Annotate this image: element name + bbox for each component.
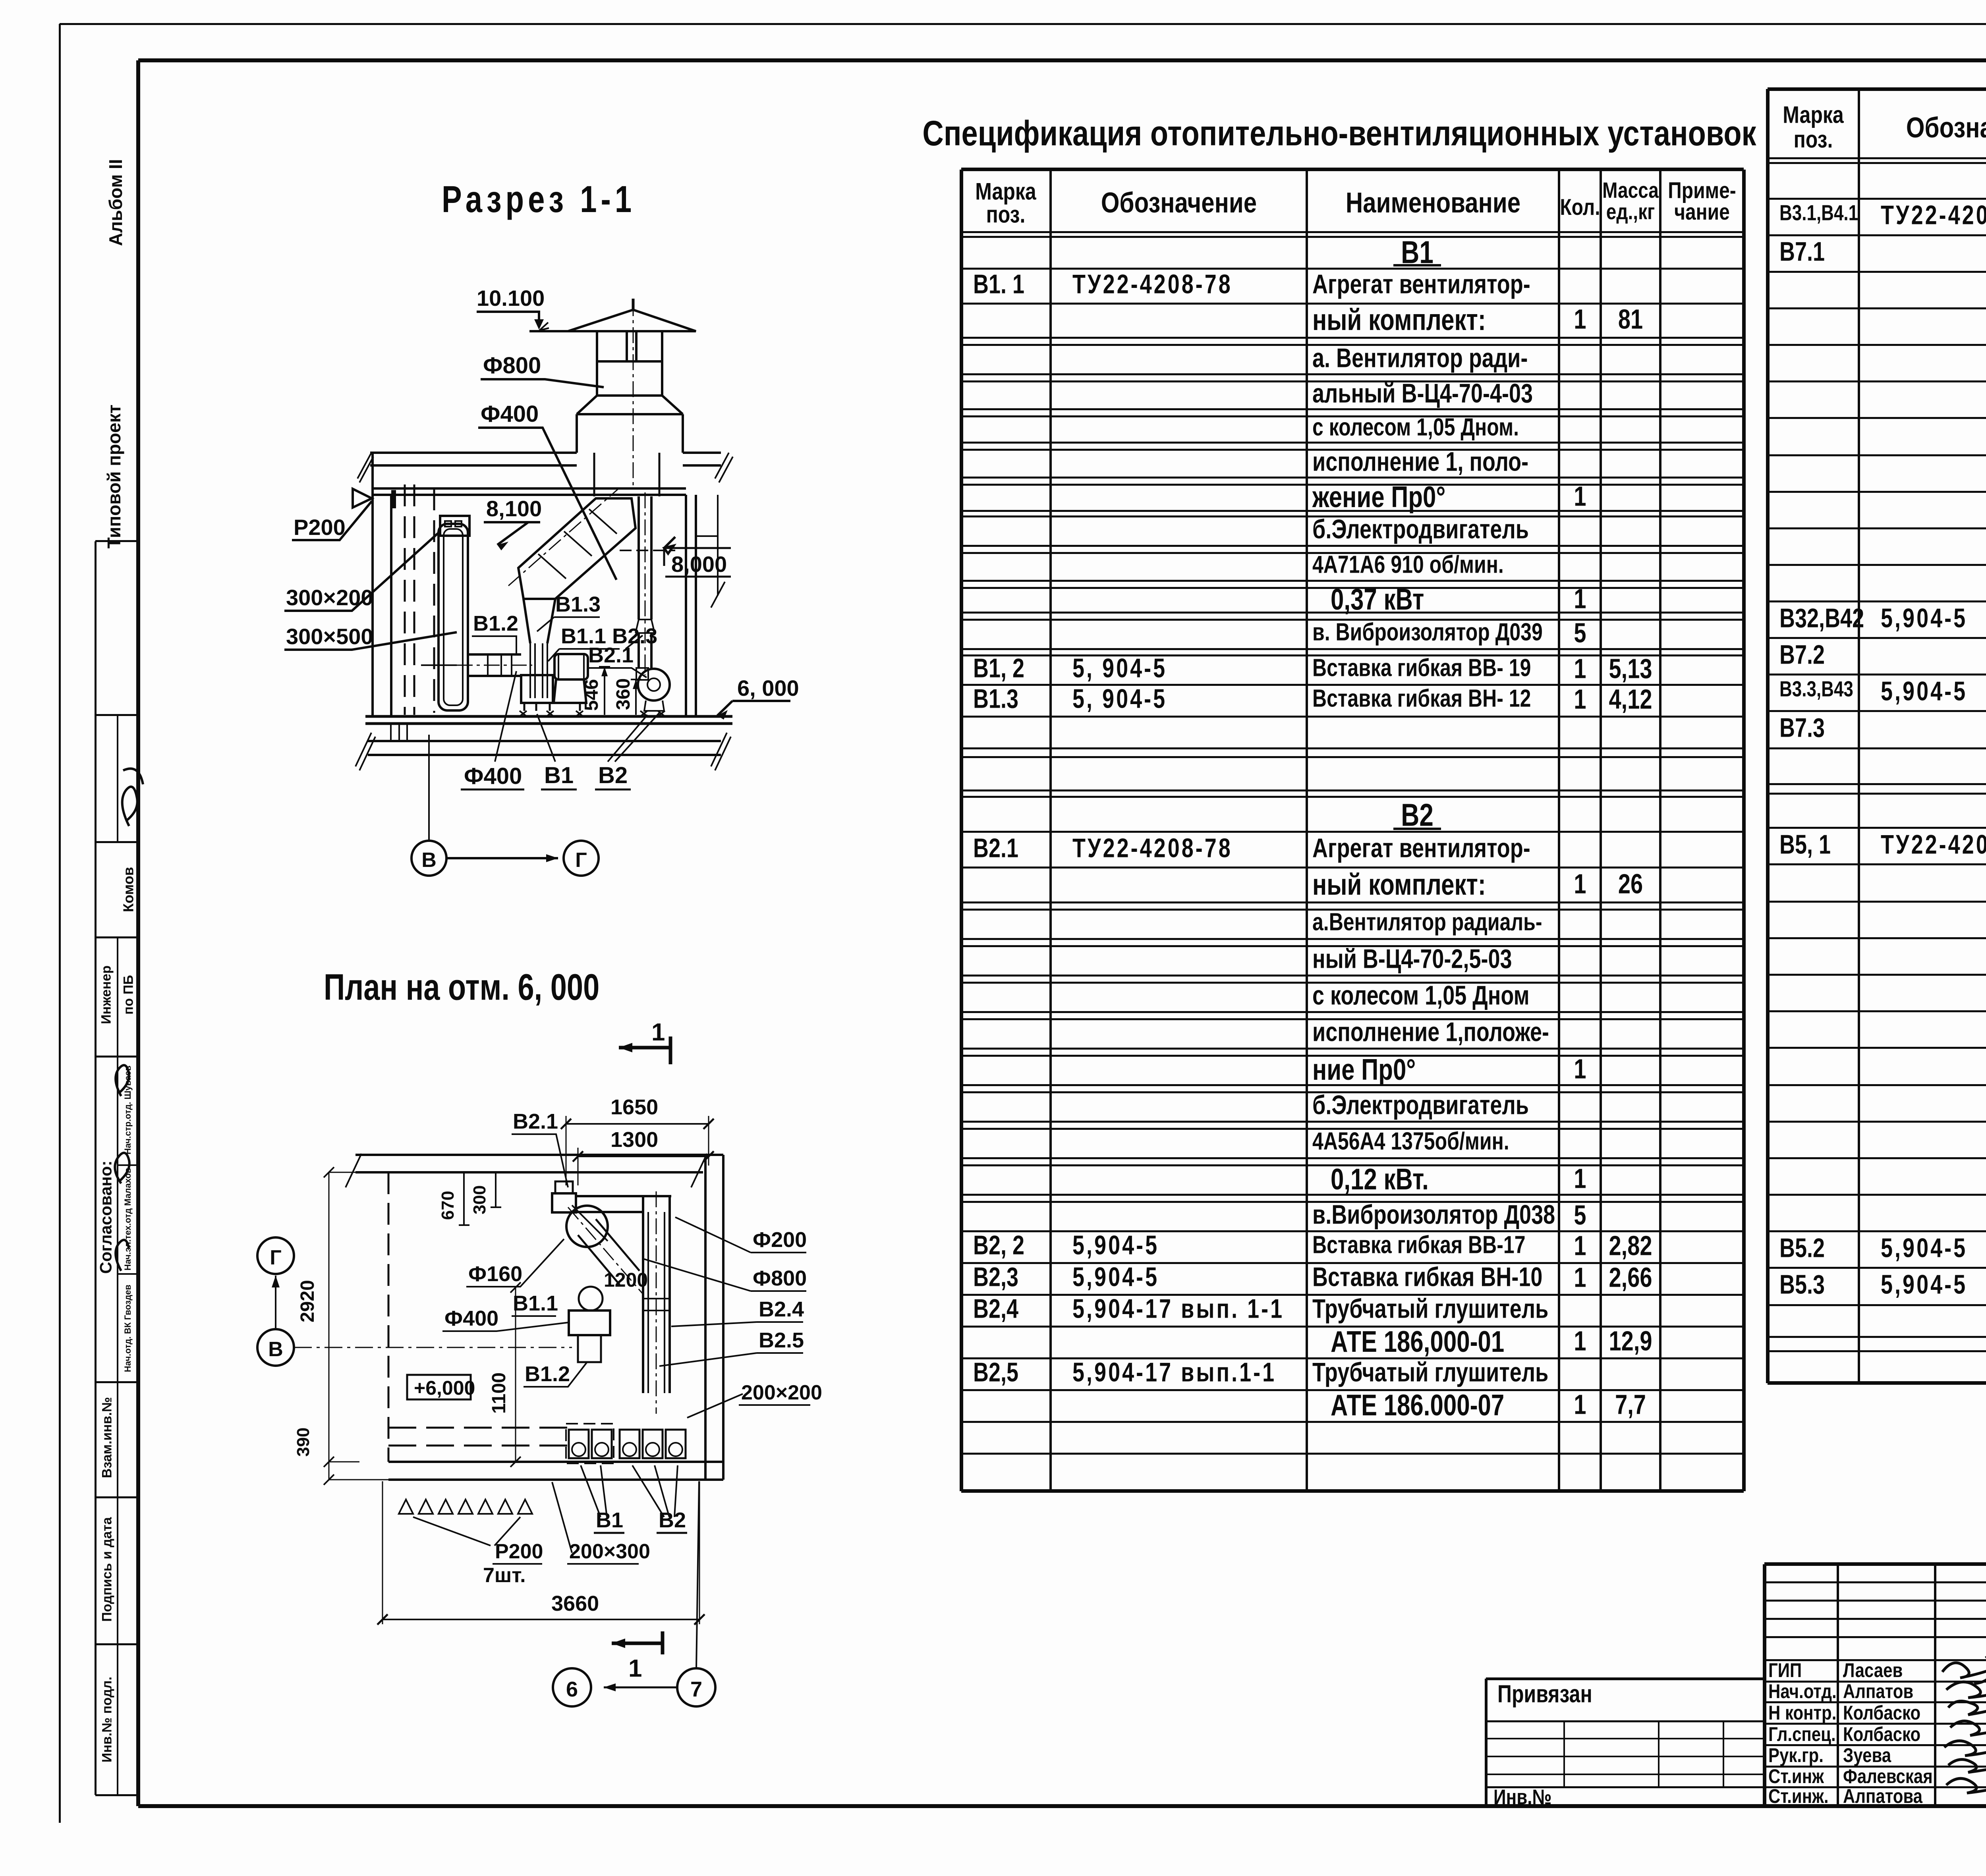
svg-text:В: В	[421, 849, 437, 872]
svg-text:Ф800: Ф800	[753, 1266, 807, 1290]
svg-text:670: 670	[438, 1191, 458, 1220]
svg-text:В2.1: В2.1	[513, 1110, 558, 1133]
svg-text:1200: 1200	[604, 1269, 648, 1291]
svg-text:В1.2: В1.2	[473, 612, 518, 635]
svg-text:546: 546	[581, 679, 602, 711]
svg-text:Р200: Р200	[495, 1540, 543, 1563]
svg-text:Ф400: Ф400	[481, 401, 539, 427]
svg-text:Ф800: Ф800	[483, 353, 541, 378]
svg-text:В2.1: В2.1	[588, 643, 634, 667]
svg-text:В2: В2	[659, 1508, 686, 1532]
svg-text:В: В	[268, 1338, 283, 1361]
svg-text:300×500: 300×500	[286, 624, 373, 649]
svg-text:Ф200: Ф200	[753, 1228, 807, 1252]
svg-text:Г: Г	[575, 849, 587, 872]
svg-text:200×200: 200×200	[741, 1381, 822, 1404]
svg-text:В1.3: В1.3	[555, 593, 601, 616]
svg-text:Ф400: Ф400	[464, 763, 522, 789]
svg-text:В1: В1	[544, 762, 574, 788]
svg-text:6: 6	[566, 1677, 578, 1701]
svg-text:1: 1	[651, 1019, 665, 1046]
svg-text:300×200: 300×200	[286, 585, 373, 610]
svg-text:3660: 3660	[551, 1592, 599, 1615]
svg-text:+6,000: +6,000	[414, 1377, 475, 1399]
svg-text:В2: В2	[598, 762, 628, 788]
svg-text:200×300: 200×300	[569, 1540, 650, 1563]
svg-text:360: 360	[613, 678, 634, 710]
svg-text:1100: 1100	[489, 1372, 510, 1414]
svg-text:В2.5: В2.5	[759, 1328, 804, 1352]
svg-text:10.100: 10.100	[477, 286, 545, 311]
svg-text:В1.2: В1.2	[525, 1362, 570, 1386]
svg-text:2920: 2920	[297, 1280, 318, 1322]
svg-text:1300: 1300	[610, 1128, 658, 1152]
svg-text:В2.4: В2.4	[759, 1297, 804, 1321]
svg-text:6, 000: 6, 000	[737, 676, 799, 701]
svg-text:8,100: 8,100	[486, 496, 542, 521]
svg-text:7: 7	[690, 1677, 702, 1701]
svg-text:Р200: Р200	[294, 515, 346, 540]
svg-text:В1.1: В1.1	[513, 1291, 558, 1315]
svg-text:300: 300	[470, 1185, 489, 1214]
svg-text:Г: Г	[270, 1246, 281, 1269]
svg-text:1650: 1650	[610, 1095, 658, 1119]
svg-text:Ф160: Ф160	[468, 1262, 522, 1286]
svg-text:7шт.: 7шт.	[483, 1564, 526, 1587]
svg-text:1: 1	[628, 1655, 642, 1682]
svg-text:8,000: 8,000	[671, 552, 727, 577]
svg-text:390: 390	[294, 1428, 313, 1457]
svg-text:В1: В1	[596, 1508, 623, 1532]
svg-text:Ф400: Ф400	[444, 1307, 498, 1330]
